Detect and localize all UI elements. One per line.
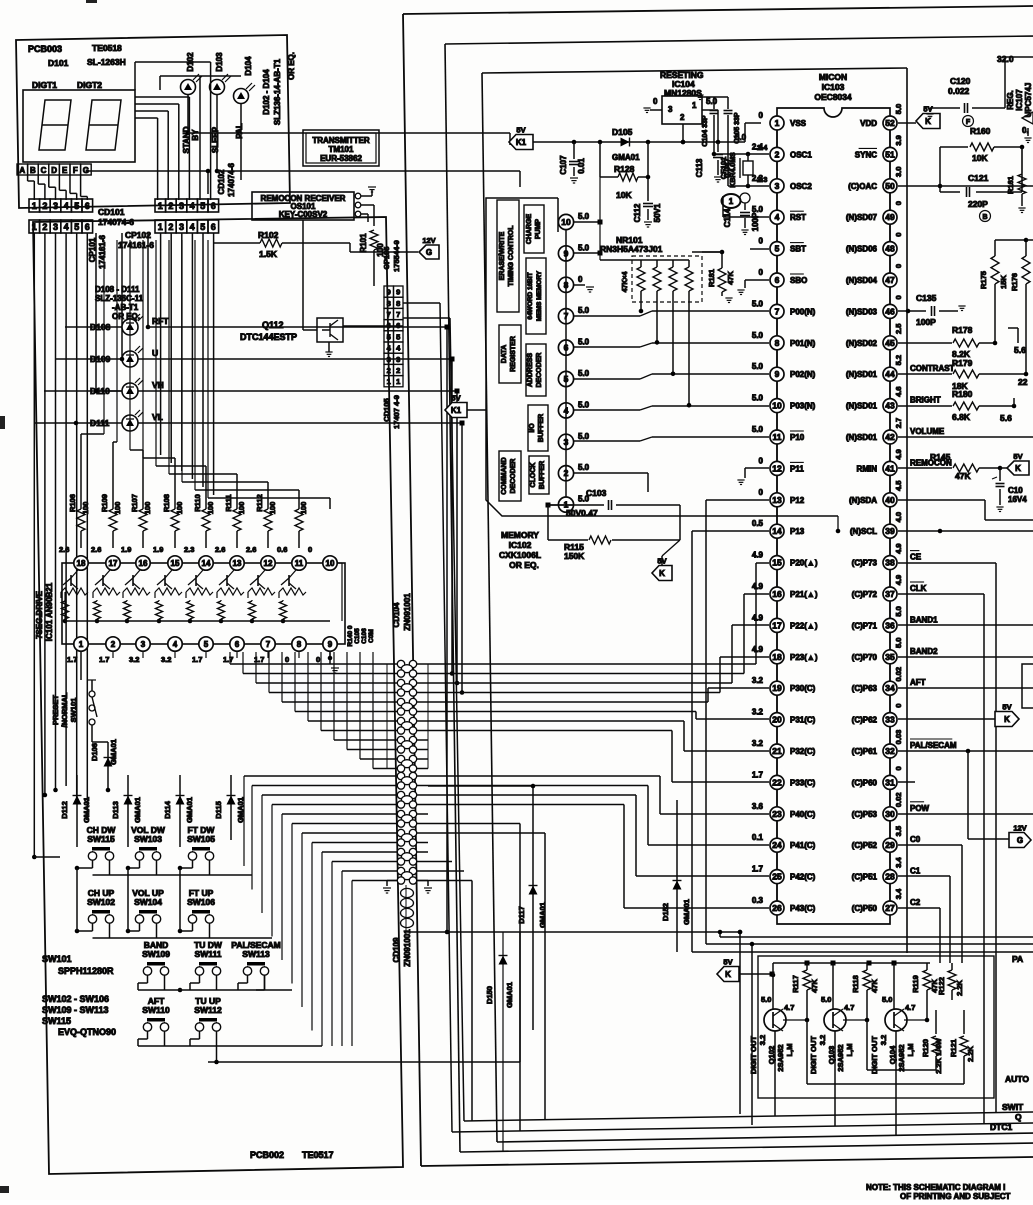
svg-text:VH: VH [152, 380, 164, 390]
svg-text:5.0: 5.0 [578, 369, 590, 378]
pin IC103-18 P23(&#9650;) [752, 645, 818, 681]
diode D150 GMA01 [485, 932, 514, 1152]
pin IC102-4 [558, 400, 589, 418]
svg-text:0: 0 [316, 655, 320, 664]
wire frame inner 3 (micon board) [482, 68, 1033, 1142]
svg-text:1.7: 1.7 [752, 865, 764, 874]
svg-text:MICON: MICON [819, 72, 847, 82]
svg-text:16V4: 16V4 [1008, 495, 1027, 504]
svg-text:C10: C10 [1008, 486, 1023, 495]
svg-text:5.0: 5.0 [578, 306, 590, 315]
svg-text:100P: 100P [751, 212, 760, 231]
svg-text:D105: D105 [612, 127, 633, 137]
label PR bottom right [1012, 954, 1023, 964]
svg-text:12V: 12V [422, 236, 435, 245]
capacitor C121 220P [938, 147, 1022, 222]
svg-text:Q: Q [1015, 1112, 1022, 1122]
flag 5V K vdd [898, 105, 940, 129]
pin IC101-12 [246, 545, 275, 570]
ic IC103 MICON body [777, 108, 890, 924]
regulator REG. IC107 UPC574J [1006, 83, 1033, 143]
pin IC103-42 (N)SD01 [846, 418, 945, 462]
svg-text:DTC1: DTC1 [990, 1122, 1012, 1132]
resistor R107 100 [130, 494, 152, 548]
svg-text:1: 1 [158, 201, 163, 211]
svg-text:33: 33 [885, 715, 895, 725]
pin IC103-11 P10 [752, 425, 805, 461]
svg-text:TE0518: TE0518 [92, 43, 122, 53]
svg-text:2SA952: 2SA952 [897, 1044, 906, 1071]
svg-text:12: 12 [264, 559, 273, 568]
svg-text:BUFFER: BUFFER [539, 461, 546, 489]
svg-text:C0M: C0M [368, 629, 375, 643]
svg-text:CLK: CLK [910, 584, 927, 593]
svg-text:(C)P60: (C)P60 [852, 778, 878, 787]
ic IC102 memory outline [486, 198, 838, 531]
block CLOCK BUFFER [529, 456, 549, 494]
switch SW104 VOL UP [132, 888, 164, 923]
svg-text:2.7: 2.7 [894, 418, 903, 428]
resistor R181 47K [692, 250, 735, 303]
svg-text:3: 3 [179, 222, 184, 232]
svg-text:(C)P53: (C)P53 [852, 810, 878, 819]
switch SW110 AFT [142, 996, 170, 1031]
svg-text:CE: CE [910, 553, 922, 562]
connector CP102 [155, 220, 166, 233]
svg-text:25: 25 [772, 872, 782, 882]
capacitor C107 0.01 [559, 142, 586, 183]
svg-text:2: 2 [42, 222, 47, 232]
label SWITCH DTC [990, 1102, 1024, 1132]
svg-text:SW105: SW105 [187, 834, 215, 844]
svg-text:0: 0 [894, 233, 903, 237]
svg-text:L,M: L,M [785, 1044, 794, 1057]
svg-text:2SA952: 2SA952 [836, 1044, 845, 1071]
svg-text:174161-6: 174161-6 [98, 235, 107, 269]
svg-text:0.03: 0.03 [894, 730, 903, 745]
svg-text:41: 41 [885, 463, 895, 473]
svg-text:SW111: SW111 [195, 949, 222, 959]
svg-text:D113: D113 [111, 801, 120, 819]
svg-text:3: 3 [668, 105, 673, 114]
svg-text:P42(C): P42(C) [790, 873, 816, 882]
label RESETING IC104 MN1280S [660, 70, 704, 98]
pin IC101-15 [153, 545, 182, 570]
label SW102 - SW106 SW109 - SW113 SW115 EVQ-QTNO90 [42, 994, 116, 1037]
scan artifact top edge [86, 0, 97, 3]
svg-text:SW104: SW104 [134, 897, 162, 907]
svg-text:4.9: 4.9 [894, 449, 903, 459]
svg-text:SW101: SW101 [42, 954, 72, 964]
pin IC103-35 (C)P70 [852, 638, 938, 682]
svg-text:3.2: 3.2 [758, 1035, 767, 1045]
scan artifact bottom left [0, 1186, 9, 1193]
svg-text:SW113: SW113 [242, 949, 270, 959]
svg-text:CONTRAST: CONTRAST [910, 364, 955, 373]
svg-text:35: 35 [885, 652, 895, 662]
svg-text:SW101: SW101 [69, 698, 78, 723]
resistor R115 150K [548, 505, 680, 561]
svg-text:RN3H5A473J01: RN3H5A473J01 [600, 244, 663, 254]
flag 12V G right [968, 751, 1031, 848]
svg-text:5V: 5V [451, 394, 460, 403]
svg-text:IC101 AN90B21: IC101 AN90B21 [45, 582, 54, 641]
svg-text:0: 0 [759, 237, 764, 246]
svg-text:PCB002: PCB002 [250, 1150, 284, 1160]
svg-text:(N)SD06: (N)SD06 [846, 245, 878, 254]
svg-text:CF101: CF101 [719, 157, 728, 180]
svg-text:3: 3 [53, 222, 58, 232]
display digit 2 segments [86, 100, 121, 150]
transistor Q102 2SA952 DIGIT OUT [749, 995, 809, 1074]
resistor R111 100 [224, 494, 246, 548]
svg-text:C104 33P: C104 33P [702, 115, 709, 146]
svg-text:(C)P52: (C)P52 [852, 841, 878, 850]
label CD105 174074-9 vertical [382, 395, 401, 429]
svg-text:150K: 150K [564, 551, 585, 561]
svg-text:SW102 - SW106: SW102 - SW106 [42, 994, 109, 1004]
svg-text:P00(N): P00(N) [790, 307, 816, 316]
wire CP102 bus verticals [161, 233, 214, 495]
diode D113 GMA01 [111, 775, 142, 840]
svg-text:9: 9 [387, 288, 391, 297]
block I/O BUFFER [528, 405, 548, 451]
scan artifact left edge [0, 416, 5, 429]
svg-text:CD109: CD109 [392, 937, 401, 962]
svg-text:ZN091001: ZN091001 [403, 593, 412, 631]
svg-text:0.6: 0.6 [277, 545, 287, 554]
transistor IC101 driver 6 [217, 570, 244, 623]
svg-text:2.6: 2.6 [91, 545, 101, 554]
box digit out outline [758, 956, 994, 1098]
svg-text:1.7: 1.7 [67, 655, 77, 664]
svg-text:100: 100 [206, 502, 215, 515]
label CP101 174161-6 vertical [88, 235, 107, 269]
svg-text:(C)P72: (C)P72 [852, 590, 878, 599]
wire pin12 ground [737, 468, 769, 485]
svg-text:0: 0 [894, 766, 903, 770]
pin IC102-1 [558, 495, 589, 513]
svg-text:TE0517: TE0517 [302, 1150, 334, 1160]
pin IC101-14 [184, 545, 213, 570]
svg-text:4: 4 [775, 212, 780, 222]
svg-text:22: 22 [772, 777, 782, 787]
wire receiver pins [355, 187, 376, 226]
svg-text:2.2K 1/4W: 2.2K 1/4W [934, 1037, 943, 1073]
wire LED rows to right bus [34, 325, 465, 935]
svg-text:COMMAND: COMMAND [501, 457, 508, 494]
svg-text:175544-9: 175544-9 [392, 240, 401, 272]
svg-text:C107: C107 [559, 155, 568, 175]
svg-text:0: 0 [894, 264, 903, 268]
ground IC101 pin9 [328, 652, 339, 673]
svg-text:C106: C106 [361, 628, 368, 644]
svg-text:B: B [982, 214, 987, 221]
svg-text:5: 5 [775, 244, 780, 254]
svg-text:2.5: 2.5 [894, 324, 903, 334]
flag 5V K mem [652, 540, 680, 581]
diode LED D110 [90, 378, 164, 399]
svg-text:5: 5 [200, 222, 205, 232]
svg-text:TIMING CONTROL: TIMING CONTROL [508, 225, 515, 287]
connector CD104 pin column [387, 660, 428, 772]
svg-text:GMA01: GMA01 [505, 982, 514, 1008]
svg-text:18: 18 [77, 559, 86, 568]
svg-text:BRIGHT: BRIGHT [910, 396, 941, 405]
pin IC103-7 P00(N) [752, 299, 816, 335]
svg-text:R176: R176 [1010, 273, 1019, 291]
resistor R101 100 [359, 230, 385, 286]
svg-text:3.4: 3.4 [894, 857, 903, 868]
svg-text:5V: 5V [1002, 703, 1011, 712]
svg-text:26: 26 [772, 903, 782, 913]
svg-text:(C)P73: (C)P73 [852, 559, 878, 568]
svg-text:29: 29 [885, 840, 895, 850]
svg-text:C103: C103 [586, 488, 607, 498]
svg-text:0.5: 0.5 [752, 519, 764, 528]
capacitor C105 33P [724, 97, 742, 186]
wire pin40 40 out [898, 500, 1033, 520]
svg-text:2.2K: 2.2K [955, 979, 964, 995]
svg-text:P32(C): P32(C) [790, 747, 816, 756]
capacitor C103 50V0.47 [546, 488, 681, 540]
wire base drop Q103 [867, 1020, 936, 1070]
svg-text:17: 17 [772, 620, 782, 630]
svg-text:4.9: 4.9 [894, 575, 903, 585]
pin IC103-27 (C)P50 [852, 888, 921, 915]
box REMOCON RECEIVER OS101 KEY-C00SV2 [252, 192, 354, 220]
svg-text:MEMS MEMORY: MEMS MEMORY [536, 270, 543, 321]
svg-text:ADDRESS: ADDRESS [527, 353, 534, 388]
pin IC102-9 [558, 243, 589, 261]
svg-text:3.2: 3.2 [129, 655, 139, 664]
svg-text:AUTO: AUTO [1005, 1074, 1029, 1084]
wire LED cathode wires [186, 94, 520, 187]
svg-text:C105 33P: C105 33P [734, 112, 741, 143]
svg-text:5V: 5V [723, 958, 732, 967]
svg-text:2.4: 2.4 [757, 143, 768, 152]
pin IC103-31 (C)P60 [852, 766, 903, 806]
svg-text:100: 100 [143, 502, 152, 515]
wire segment routing to CD101 [28, 175, 88, 200]
label CD104 ZN091001 vertical [392, 593, 412, 631]
svg-text:4: 4 [190, 201, 195, 211]
pin IC103-2 OSC1 [752, 142, 812, 178]
pin IC102-8 [558, 275, 583, 293]
svg-text:R108: R108 [162, 494, 171, 512]
svg-text:D106: D106 [90, 743, 99, 761]
pin IC103-24 P41(C) [752, 833, 816, 869]
pin IC101-16 [121, 545, 150, 570]
svg-text:4: 4 [64, 201, 69, 211]
pin IC103-33 (C)P62 [852, 704, 903, 744]
svg-text:K: K [725, 970, 731, 979]
svg-text:50V0.47: 50V0.47 [566, 508, 598, 518]
svg-text:5.0: 5.0 [752, 425, 764, 434]
svg-text:OR EQ.: OR EQ. [112, 312, 140, 321]
svg-text:4.9: 4.9 [752, 645, 764, 654]
svg-text:P21(▲): P21(▲) [790, 590, 818, 599]
svg-text:5.0: 5.0 [578, 212, 590, 221]
switch SW111 TU DW [194, 940, 223, 975]
svg-text:100: 100 [81, 502, 90, 515]
svg-text:MEMORY: MEMORY [501, 530, 539, 540]
svg-text:VSS: VSS [790, 119, 807, 128]
svg-text:K1: K1 [516, 138, 527, 147]
svg-text:12V: 12V [1013, 824, 1026, 833]
svg-text:7: 7 [387, 310, 391, 319]
svg-text:174074-6: 174074-6 [227, 163, 236, 197]
svg-text:6: 6 [211, 222, 216, 232]
pin IC103-30 (C)P53 [852, 792, 930, 838]
svg-text:23: 23 [772, 809, 782, 819]
svg-text:3.9: 3.9 [894, 135, 903, 145]
svg-text:15: 15 [772, 558, 782, 568]
svg-text:IC103: IC103 [822, 82, 845, 92]
svg-text:CD105: CD105 [382, 398, 391, 421]
svg-text:SW115: SW115 [42, 1016, 71, 1026]
pin IC103-29 (C)P52 [852, 826, 921, 870]
resistor R161 [1006, 147, 1026, 213]
pin IC103-21 P32(C) [752, 739, 816, 775]
svg-text:4.0: 4.0 [894, 512, 903, 522]
svg-text:D104: D104 [244, 56, 253, 76]
svg-text:B: B [30, 166, 36, 175]
wire right bundle bottom [692, 500, 1033, 1125]
wire CE CLK BAND POW C lines right [898, 563, 1033, 1124]
svg-text:-AB-T1: -AB-T1 [112, 303, 139, 312]
svg-text:52: 52 [885, 118, 895, 128]
svg-text:PCB003: PCB003 [28, 44, 62, 54]
wire switch row4 links [138, 932, 520, 1064]
pin IC101-5 [192, 637, 213, 664]
svg-text:36: 36 [885, 620, 895, 630]
wire switch row3 links [138, 975, 292, 992]
wire PCB002 board outline [33, 217, 403, 1174]
svg-text:F: F [966, 119, 971, 126]
label CP102 174161-6 [118, 230, 154, 250]
component partial box right edge [1022, 664, 1033, 708]
svg-text:5.0: 5.0 [761, 995, 771, 1004]
svg-text:NOTE: THIS SCHEMATIC DIAGRAM I: NOTE: THIS SCHEMATIC DIAGRAM I [866, 1183, 1005, 1192]
svg-text:R110: R110 [193, 494, 202, 512]
svg-text:1.7: 1.7 [223, 655, 233, 664]
svg-text:3.2: 3.2 [879, 1035, 888, 1045]
svg-text:OSC2: OSC2 [790, 182, 812, 191]
svg-text:17: 17 [109, 559, 118, 568]
svg-text:DTC144ESTP: DTC144ESTP [240, 332, 297, 342]
svg-text:K: K [1015, 464, 1021, 473]
svg-text:17407 4-9: 17407 4-9 [392, 395, 401, 429]
resistor R118 47K [851, 963, 879, 1020]
svg-text:5.2: 5.2 [894, 355, 903, 365]
pin IC103-36 (C)P71 [852, 606, 938, 650]
svg-text:0: 0 [759, 268, 764, 277]
svg-text:IC102: IC102 [509, 540, 532, 550]
svg-text:42: 42 [885, 432, 895, 442]
svg-text:D101: D101 [48, 58, 69, 68]
wire ladder B to micon staircase [428, 776, 769, 908]
svg-text:R179: R179 [952, 358, 973, 368]
svg-text:3: 3 [387, 355, 391, 364]
svg-text:18: 18 [772, 652, 782, 662]
svg-text:2: 2 [111, 640, 116, 649]
svg-text:SPPH11280R: SPPH11280R [58, 966, 114, 976]
wire mem to micon pins 7-11 [574, 311, 769, 441]
capacitor C104 33P [696, 95, 728, 154]
pin IC103-23 P40(C) [752, 802, 816, 838]
pin IC103-50 (C)OAC [848, 167, 903, 211]
pin IC101-2 [99, 637, 120, 664]
svg-text:/NORMAL: /NORMAL [60, 692, 69, 727]
svg-text:P02(N): P02(N) [790, 370, 816, 379]
LED D104 [234, 83, 256, 104]
svg-text:44: 44 [885, 369, 895, 379]
svg-text:220P: 220P [968, 199, 988, 209]
svg-text:9: 9 [328, 640, 333, 649]
svg-text:(N)SD07: (N)SD07 [846, 213, 878, 222]
resistor R1xx 100 [295, 502, 308, 548]
pin IC103-38 (C)P73 [852, 543, 922, 587]
connector CP101 [29, 220, 40, 233]
svg-text:EUR-53862: EUR-53862 [320, 154, 362, 163]
pin IC103-5 SBT [759, 237, 807, 273]
wire long row to micon bottom [406, 885, 742, 934]
svg-text:15: 15 [171, 559, 180, 568]
wire pin50 OAC out [898, 185, 1033, 187]
svg-text:1: 1 [32, 201, 37, 211]
pin IC103-20 P31(C) [752, 708, 816, 744]
transistor IC101 driver 7 [248, 570, 275, 623]
svg-text:CP105: CP105 [382, 247, 391, 270]
svg-text:SW103: SW103 [134, 834, 162, 844]
wire mem pin feeds [574, 220, 603, 293]
label STAND BY [182, 126, 200, 153]
svg-text:47K: 47K [870, 979, 879, 993]
pin IC103-22 P33(C) [752, 770, 816, 806]
svg-text:31: 31 [885, 777, 895, 787]
svg-text:14: 14 [202, 559, 211, 568]
svg-text:DECODER: DECODER [510, 458, 517, 493]
svg-text:16: 16 [139, 559, 148, 568]
svg-text:EVQ-QTNO90: EVQ-QTNO90 [58, 1027, 116, 1037]
pin IC102-3 [558, 432, 589, 450]
svg-text:1: 1 [692, 101, 697, 110]
svg-text:0: 0 [894, 295, 903, 299]
svg-text:174074-6: 174074-6 [98, 217, 134, 227]
svg-text:SBO: SBO [790, 276, 807, 285]
svg-text:D102 - D104: D102 - D104 [262, 69, 271, 115]
svg-text:100: 100 [237, 502, 246, 515]
svg-text:30: 30 [885, 809, 895, 819]
svg-text:K: K [659, 569, 665, 578]
wire pin4 RST link [723, 196, 769, 217]
svg-text:2: 2 [680, 113, 685, 122]
svg-text:R102: R102 [258, 230, 279, 240]
label D102 - D104 / SLZ136-14-AB-T1 [262, 58, 282, 125]
svg-text:0: 0 [894, 704, 903, 708]
svg-text:U: U [152, 348, 158, 358]
svg-text:Q112: Q112 [262, 320, 284, 330]
wire ladder A to micon staircase [428, 563, 769, 782]
svg-text:C1: C1 [910, 867, 921, 876]
transistor Q112 DTC144ESTP [303, 220, 403, 357]
switch SW113 PAL/SECAM [231, 940, 280, 975]
svg-text:PRESET: PRESET [51, 695, 60, 725]
svg-text:4.9: 4.9 [894, 543, 903, 553]
svg-text:TRANSMITTER: TRANSMITTER [312, 136, 370, 145]
pin IC101-3 [129, 637, 150, 664]
